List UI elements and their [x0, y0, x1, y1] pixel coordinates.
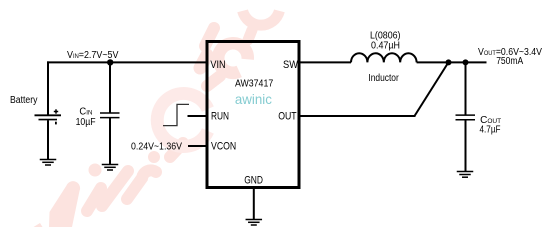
- ground (CIN): [102, 165, 119, 171]
- svg-text:VCON: VCON: [211, 140, 236, 152]
- watermark m leg 2: [102, 171, 128, 206]
- watermark corner bit: [34, 223, 43, 227]
- wire: OUT horizontal: [300, 115, 416, 117]
- watermark C tail band: [200, 55, 207, 68]
- node: CIN junction: [107, 59, 113, 65]
- watermark lower band: [207, 76, 220, 86]
- ground (IC GND): [246, 220, 262, 226]
- svg-text:10µF: 10µF: [76, 117, 96, 128]
- svg-text:GND: GND: [244, 175, 263, 187]
- watermark big C swirl (over IC top-left): [218, 43, 248, 72]
- watermark far bar: [170, 143, 183, 157]
- ground (COUT): [457, 172, 474, 178]
- wire: top input rail: [47, 61, 206, 63]
- op IC U1 AW37417 box: [207, 42, 299, 188]
- capacitor COUT plates: [456, 115, 476, 120]
- watermark faint ring c (around RUN step): [157, 93, 208, 146]
- svg-text:0.24V~1.36V: 0.24V~1.36V: [131, 142, 182, 153]
- watermark crescent arm: [248, 30, 252, 40]
- wire: CIN to ground: [109, 118, 111, 165]
- wire: COUT drop: [465, 61, 467, 114]
- inductor L1: [351, 53, 417, 62]
- svg-text:awinic: awinic: [235, 91, 272, 107]
- watermark m leg 3 with arch: [127, 170, 156, 199]
- IC pin labels: [210, 59, 298, 187]
- watermark i stem (bottom-left): [49, 181, 80, 227]
- wire: battery drop: [47, 61, 49, 115]
- svg-text:SW: SW: [283, 59, 298, 71]
- wire: battery to ground: [47, 120, 49, 160]
- svg-text:OUT: OUT: [278, 111, 297, 123]
- svg-text:750mA: 750mA: [496, 56, 523, 67]
- node: COUT junction: [463, 59, 469, 65]
- svg-text:4.7µF: 4.7µF: [480, 124, 501, 135]
- svg-text:Inductor: Inductor: [368, 73, 399, 84]
- svg-text:Battery: Battery: [10, 95, 38, 106]
- svg-text:VIN: VIN: [210, 59, 225, 71]
- watermark U crescent (top): [243, 11, 280, 25]
- svg-text:AW37417: AW37417: [235, 79, 274, 90]
- wire: inductor to output: [417, 61, 487, 63]
- wire: SW to inductor: [300, 61, 351, 63]
- wire: GND stub: [253, 189, 255, 220]
- svg-text:0.47µH: 0.47µH: [371, 40, 400, 51]
- wire: RUN stub: [188, 115, 207, 117]
- battery BT1: [35, 109, 62, 124]
- step waveform symbol at RUN: [163, 104, 189, 125]
- wire: OUT diagonal feedback: [415, 63, 449, 116]
- watermark awinic (pink, rotated fragments): [34, 11, 280, 227]
- watermark i dot: [89, 164, 102, 177]
- ground (battery): [40, 160, 57, 166]
- wire: COUT to ground: [465, 120, 467, 171]
- wire: CIN drop: [109, 62, 111, 113]
- watermark m leg 1: [87, 188, 101, 211]
- svg-text:RUN: RUN: [211, 111, 229, 123]
- node: feedback junction: [446, 59, 452, 65]
- watermark C top band: [205, 28, 214, 46]
- capacitor CIN plates: [100, 113, 120, 118]
- wire: VCON stub: [188, 145, 206, 147]
- watermark small blob: [148, 151, 160, 163]
